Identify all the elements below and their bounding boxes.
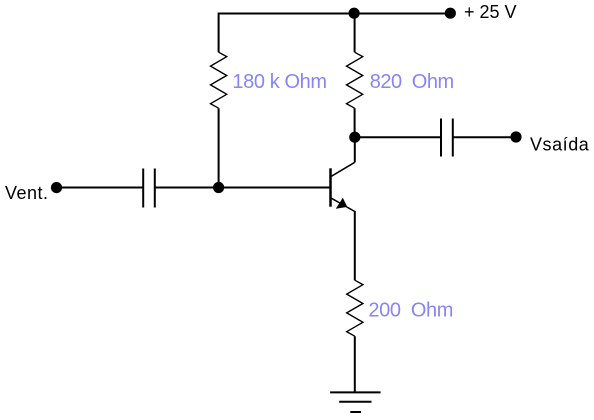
svg-text:200 Ohm: 200 Ohm [368, 300, 453, 322]
svg-text:820 Ohm: 820 Ohm [370, 71, 454, 93]
svg-text:+ 25 V: + 25 V [464, 2, 517, 22]
svg-text:180 k Ohm: 180 k Ohm [232, 71, 326, 93]
svg-text:Vsaída: Vsaída [530, 135, 590, 155]
svg-text:Vent.: Vent. [5, 183, 49, 203]
